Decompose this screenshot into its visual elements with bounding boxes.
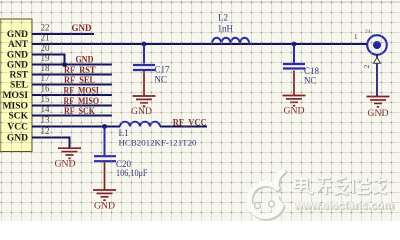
- wire pin19 GND: [32, 64, 112, 66]
- antenna connector J1: [367, 35, 387, 55]
- capacitor C18: [292, 42, 297, 47]
- connector pin 2 line: [376, 55, 378, 97]
- wire pin17 RF_SEL: [32, 84, 112, 86]
- wire L1 to RF_VCC: [160, 126, 207, 128]
- watermark logo: [249, 171, 284, 218]
- wire pin15 RF_MISO: [32, 105, 112, 107]
- ground stem below C18: [293, 71, 295, 96]
- wire pin18 RF_RST: [32, 74, 112, 76]
- wire pin13 VCC to L1: [32, 126, 120, 128]
- wire pin14 RF_SCK: [32, 115, 112, 117]
- watermark CJK text (stylized): [296, 178, 387, 195]
- wire pin21 ANT line to antenna connector: [32, 43, 368, 45]
- ground (C20): [93, 190, 116, 200]
- wire pin20 down to pin19 wire: [32, 55, 65, 65]
- ground stem below C17: [143, 71, 145, 96]
- ground (antenna connector): [367, 97, 390, 107]
- ground (C18): [283, 96, 306, 106]
- junction pin20/pin19: [62, 62, 67, 67]
- wire pin12 to ground: [32, 138, 70, 148]
- ground (C17): [133, 96, 156, 106]
- inductor L1: [120, 122, 160, 127]
- wire pin16 RF_MOSI: [32, 94, 112, 96]
- ground (pin 12): [58, 148, 81, 158]
- wire pin22 to GND net label: [32, 33, 94, 35]
- inductor L2: [212, 38, 249, 44]
- capacitor C17: [142, 42, 147, 47]
- connector U? (yellow part body): [0, 19, 32, 152]
- ground stem below C20: [104, 162, 106, 190]
- antenna arrow on pin 2: [374, 58, 381, 64]
- capacitor C20: [104, 127, 106, 156]
- junction C20 tap: [102, 124, 107, 129]
